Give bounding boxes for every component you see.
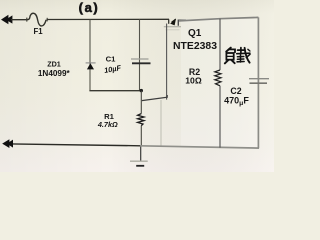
svg-text:(a): (a) xyxy=(79,0,100,15)
svg-text:Q1: Q1 xyxy=(188,28,202,39)
svg-text:F1: F1 xyxy=(33,27,43,36)
svg-text:NTE2383: NTE2383 xyxy=(173,41,217,52)
svg-text:1N4099*: 1N4099* xyxy=(38,69,71,78)
svg-text:4.7kΩ: 4.7kΩ xyxy=(97,120,118,129)
svg-text:ZD1: ZD1 xyxy=(47,59,61,68)
svg-text:C1: C1 xyxy=(106,55,117,64)
svg-text:10Ω: 10Ω xyxy=(185,75,202,85)
